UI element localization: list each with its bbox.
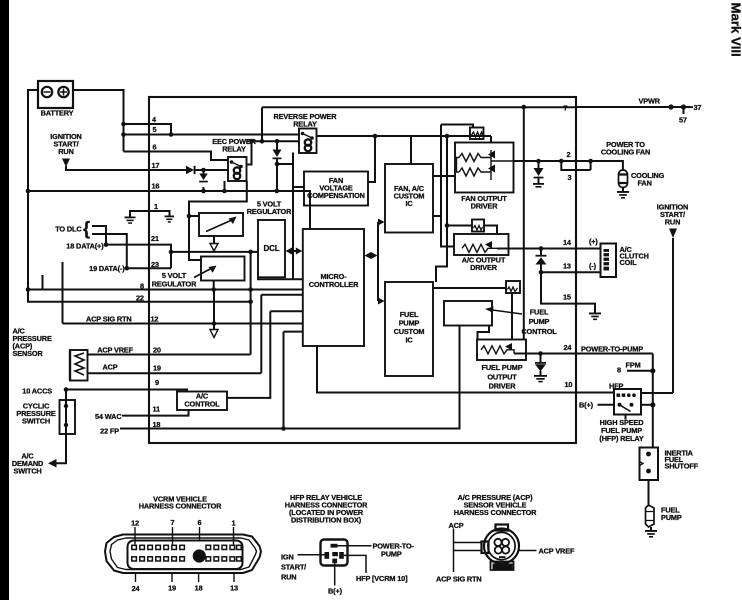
svg-text:TO DLC: TO DLC	[55, 225, 82, 234]
svg-text:FAN: FAN	[638, 179, 652, 188]
svg-text:16: 16	[152, 182, 160, 191]
svg-text:SHUTOFF: SHUTOFF	[665, 462, 699, 471]
svg-text:DISTRIBUTION BOX): DISTRIBUTION BOX)	[291, 516, 362, 525]
svg-text:BATTERY: BATTERY	[41, 109, 74, 118]
svg-text:VPWR: VPWR	[639, 97, 661, 106]
svg-text:22 FP: 22 FP	[100, 427, 119, 436]
svg-text:15: 15	[563, 293, 571, 302]
svg-text:(HFP) RELAY: (HFP) RELAY	[599, 434, 643, 443]
svg-text:ACP: ACP	[102, 363, 117, 372]
svg-text:HFP: HFP	[609, 382, 623, 391]
svg-text:37: 37	[694, 103, 702, 112]
svg-text:B(+): B(+)	[579, 401, 594, 410]
svg-text:22: 22	[136, 294, 144, 303]
svg-text:19: 19	[168, 584, 176, 593]
svg-text:12: 12	[151, 315, 159, 324]
svg-text:6: 6	[198, 518, 202, 527]
svg-text:SENSOR: SENSOR	[13, 349, 44, 358]
svg-text:IC: IC	[405, 336, 413, 345]
svg-text:ACP SIG RTN: ACP SIG RTN	[436, 575, 482, 584]
svg-text:11: 11	[153, 405, 161, 414]
svg-text:COMPENSATION: COMPENSATION	[307, 191, 365, 200]
svg-text:HARNESS CONNECTOR: HARNESS CONNECTOR	[139, 502, 222, 511]
svg-text:57: 57	[679, 116, 687, 125]
svg-text:FUEL PUMP: FUEL PUMP	[482, 363, 523, 372]
svg-text:19: 19	[153, 364, 161, 373]
svg-text:17: 17	[152, 161, 160, 170]
svg-text:PUMP: PUMP	[661, 513, 682, 522]
svg-text:COIL: COIL	[620, 258, 638, 267]
svg-text:DRIVER: DRIVER	[471, 202, 499, 211]
svg-text:6: 6	[153, 143, 157, 152]
svg-text:HARNESS CONNECTOR: HARNESS CONNECTOR	[454, 508, 537, 517]
svg-text:10 ACCS: 10 ACCS	[22, 387, 52, 396]
svg-text:19 DATA(-): 19 DATA(-)	[89, 264, 125, 273]
svg-text:RELAY: RELAY	[222, 145, 246, 154]
svg-text:5: 5	[153, 125, 157, 134]
svg-text:10: 10	[565, 380, 573, 389]
svg-text:COOLING FAN: COOLING FAN	[601, 148, 650, 157]
svg-text:21: 21	[151, 234, 159, 243]
svg-text:ACP VREF: ACP VREF	[97, 346, 133, 355]
svg-text:RUN: RUN	[281, 573, 296, 582]
svg-text:23: 23	[151, 260, 159, 269]
svg-text:DCL: DCL	[264, 244, 280, 253]
svg-text:PUMP: PUMP	[529, 317, 550, 326]
svg-text:B(+): B(+)	[328, 587, 343, 596]
svg-text:12: 12	[131, 519, 139, 528]
svg-text:13: 13	[563, 262, 571, 271]
svg-text:(+): (+)	[589, 237, 598, 246]
svg-text:3: 3	[568, 173, 572, 182]
svg-text:{: {	[83, 219, 90, 239]
svg-text:7: 7	[564, 104, 568, 113]
svg-text:CONTROLLER: CONTROLLER	[309, 280, 359, 289]
svg-text:FPM: FPM	[626, 361, 641, 370]
svg-text:24: 24	[132, 584, 141, 593]
svg-text:1: 1	[232, 519, 236, 528]
svg-text:7: 7	[171, 518, 175, 527]
svg-text:9: 9	[155, 378, 159, 387]
svg-text:FUEL: FUEL	[530, 308, 549, 317]
svg-text:OUTPUT: OUTPUT	[487, 373, 517, 382]
svg-text:(-): (-)	[589, 262, 597, 271]
svg-text:IGN: IGN	[281, 553, 294, 562]
svg-text:54 WAC: 54 WAC	[95, 412, 122, 421]
svg-text:REGULATOR: REGULATOR	[152, 280, 197, 289]
svg-text:DRIVER: DRIVER	[489, 382, 517, 391]
svg-text:13: 13	[230, 584, 238, 593]
svg-text:REGULATOR: REGULATOR	[247, 207, 292, 216]
svg-text:RELAY: RELAY	[293, 120, 317, 129]
svg-text:DRIVER: DRIVER	[470, 263, 498, 272]
svg-text:RUN: RUN	[665, 218, 680, 227]
svg-text:2: 2	[567, 150, 571, 159]
svg-text:ACP SIG RTN: ACP SIG RTN	[86, 315, 132, 324]
svg-text:CONTROL: CONTROL	[184, 400, 220, 409]
svg-text:SWITCH: SWITCH	[13, 467, 41, 476]
svg-text:1: 1	[154, 202, 158, 211]
svg-text:20: 20	[153, 346, 161, 355]
svg-text:Mark VIII: Mark VIII	[729, 3, 742, 57]
svg-text:18 DATA(+): 18 DATA(+)	[66, 242, 104, 251]
svg-text:HFP [VCRM 10]: HFP [VCRM 10]	[356, 574, 408, 583]
svg-text:RUN: RUN	[58, 147, 73, 156]
svg-text:8: 8	[140, 282, 144, 291]
svg-text:CONTROL: CONTROL	[521, 327, 557, 336]
svg-text:PUMP: PUMP	[381, 550, 402, 559]
svg-text:SWITCH: SWITCH	[22, 417, 50, 426]
svg-text:14: 14	[563, 238, 572, 247]
svg-text:24: 24	[564, 343, 573, 352]
svg-text:POWER-TO-PUMP: POWER-TO-PUMP	[581, 345, 643, 354]
svg-text:ACP VREF: ACP VREF	[539, 547, 575, 556]
svg-text:18: 18	[153, 420, 161, 429]
svg-text:8: 8	[617, 366, 621, 375]
svg-text:18: 18	[195, 584, 203, 593]
svg-text:START/: START/	[281, 563, 306, 572]
svg-text:ACP: ACP	[449, 521, 464, 530]
svg-text:IC: IC	[405, 199, 413, 208]
